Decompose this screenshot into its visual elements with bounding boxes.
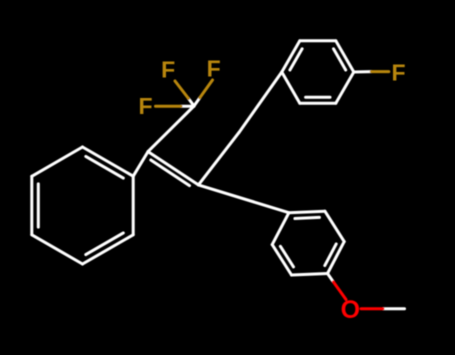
- svg-text:F: F: [138, 93, 152, 119]
- svg-text:F: F: [207, 56, 221, 82]
- svg-text:F: F: [391, 60, 405, 86]
- svg-text:F: F: [161, 57, 175, 83]
- svg-text:O: O: [341, 296, 360, 324]
